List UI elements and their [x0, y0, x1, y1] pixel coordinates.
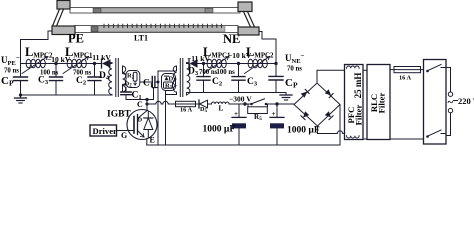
bridge diode top-right [325, 89, 333, 97]
main switch box [424, 60, 447, 145]
fuse 16A left [176, 101, 196, 106]
wire T1 primary bottom to snubber loop [123, 84, 127, 93]
right slanted bridge [244, 12, 255, 28]
lamp upper tube envelope [70, 8, 240, 14]
svg-text:16 A: 16 A [399, 75, 412, 82]
transformer T1 primary winding [123, 66, 126, 92]
inductor LMPC2 right [245, 57, 270, 74]
capacitor C3 right [232, 64, 245, 93]
bridge right vertex to bottom rail [339, 105, 341, 146]
IGBT body circle [127, 110, 157, 140]
transformer T2 primary winding [173, 66, 176, 92]
transformer T1 core [116, 59, 119, 97]
node -10kV right [237, 62, 240, 65]
driver box [90, 125, 117, 136]
svg-text:IGBT: IGBT [107, 110, 131, 120]
svg-text:70 ns: 70 ns [4, 68, 19, 75]
right top connector box [238, 2, 252, 12]
svg-text:E: E [150, 136, 155, 145]
ground rail right chain [187, 93, 286, 96]
svg-text:1000 µF: 1000 µF [203, 125, 236, 135]
soft start switch [250, 99, 277, 105]
svg-text:16 A: 16 A [180, 107, 193, 114]
svg-text:Filter: Filter [377, 92, 387, 113]
diode D3 [187, 59, 198, 68]
svg-text:−11 kV: −11 kV [88, 53, 111, 62]
wire C1 shunt to collector node [126, 88, 158, 100]
wire T2 primary bottom [166, 92, 177, 94]
capacitor C1 shunt [121, 88, 131, 100]
AC source terminals [446, 68, 458, 136]
ground rail left chain [21, 94, 112, 96]
NE electrode block [238, 27, 259, 35]
label RLC Filter [369, 92, 387, 113]
transformer T2 core [180, 59, 183, 97]
wire PE block to chain input [21, 31, 53, 64]
node -11kV left [93, 62, 96, 65]
electrolytic cap 1000uF left [232, 104, 246, 145]
junction C1 series [157, 81, 160, 84]
node on bus [145, 102, 148, 105]
diode D5 [196, 100, 212, 108]
snubber loop D1 R1 [162, 74, 176, 91]
svg-text:PE: PE [68, 32, 84, 46]
IGBT emitter wire [146, 139, 148, 146]
PFC filter box [345, 65, 364, 140]
gate wire [117, 130, 135, 132]
diode D4 [102, 59, 113, 68]
series capacitor C1 [140, 77, 158, 88]
svg-text:D: D [138, 118, 143, 124]
transformer T2 secondary winding [187, 63, 190, 96]
fuse 16A right [394, 67, 424, 73]
capacitor C2 right [197, 64, 210, 93]
svg-text:L: L [219, 105, 224, 113]
capacitor CP left [14, 64, 28, 96]
svg-text:100 ns: 100 ns [217, 69, 236, 76]
wire NE block to chain input [259, 32, 276, 64]
wire vertical crossing 1 [157, 82, 159, 145]
left top connector box [57, 1, 70, 10]
transformer T1 secondary winding [109, 63, 112, 96]
bridge diode bottom-right [325, 111, 333, 119]
lamp lower tube LT1 [75, 26, 238, 33]
node UNE [274, 62, 277, 65]
svg-text:NE: NE [223, 32, 240, 46]
wire vertical crossing 2 [165, 91, 167, 146]
ground symbol right [280, 93, 292, 101]
PE electrode block [52, 26, 75, 35]
bridge rectifier diamond [294, 83, 340, 126]
capacitor C3 left [50, 64, 63, 96]
IGBT internal diode [144, 112, 153, 138]
ground symbol left [15, 93, 27, 103]
capacitor C2 left [88, 64, 101, 96]
electrolytic cap 1000uF right [270, 104, 284, 145]
collector vertical wire [146, 100, 148, 111]
svg-text:700 ns: 700 ns [199, 69, 218, 76]
AC wires to fuse and switch [390, 70, 424, 139]
wire T1 primary top to snubber loop [123, 66, 127, 75]
left chain top wire [21, 63, 102, 65]
bridge diode top-left [301, 89, 309, 97]
inductor LMPC1 left [63, 57, 89, 74]
svg-text:+: + [234, 110, 238, 118]
left slanted bridge [53, 9, 64, 26]
wires between filter boxes [363, 70, 367, 139]
svg-text:+: + [272, 110, 276, 118]
inductor LMPC1 right [204, 57, 229, 74]
wire top link to T2 primary [158, 66, 177, 82]
right chain top wire [198, 63, 277, 65]
capacitor CP right [269, 64, 283, 93]
node collector top [145, 98, 148, 101]
bridge bottom vertex to PFC with hop [318, 126, 345, 134]
winding ticks on lower tube [104, 24, 222, 27]
inductor L [212, 102, 246, 104]
svg-text:LT1: LT1 [134, 34, 148, 43]
svg-text:Filter: Filter [354, 104, 364, 125]
svg-text:25 mH: 25 mH [353, 73, 363, 99]
node -10kV left [54, 62, 57, 65]
inductor LMPC2 left [22, 57, 48, 74]
svg-text:~: ~ [448, 97, 454, 109]
bottom rail [147, 144, 340, 146]
bridge diode bottom-left [301, 111, 309, 119]
collector bus with hops [147, 101, 176, 104]
svg-text:70 ns: 70 ns [287, 66, 302, 73]
svg-text:1000 µF: 1000 µF [287, 126, 320, 136]
label PFC Filter [346, 104, 364, 125]
node -11kV right [202, 62, 205, 65]
bridge top vertex to AC top wire [317, 70, 345, 83]
node at cap2 [275, 102, 278, 105]
svg-text:Driver: Driver [93, 126, 118, 136]
svg-text:−300 V: −300 V [229, 95, 252, 104]
svg-text:C: C [137, 100, 143, 109]
node -300V [243, 102, 246, 105]
snubber loop R2 D2 [126, 71, 140, 88]
svg-text:G: G [121, 131, 127, 140]
RLC filter box [367, 65, 390, 140]
svg-text:220 V: 220 V [458, 96, 474, 106]
resistor R5 box [248, 104, 268, 114]
